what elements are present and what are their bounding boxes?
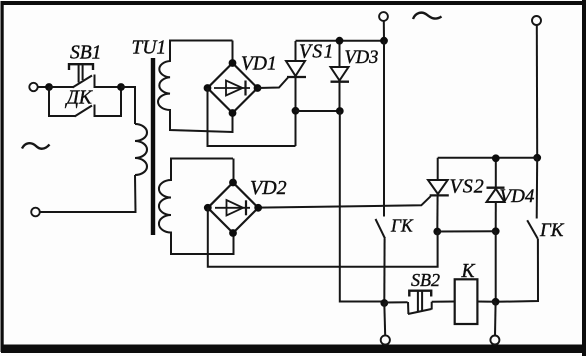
pushbutton SB1 right post — [94, 75, 96, 89]
contact GK left blade — [376, 219, 386, 239]
wire GK left down — [383, 239, 385, 304]
diode bridge VD1 diamond — [208, 63, 258, 113]
AC source squiggle top — [413, 13, 442, 19]
svg-text:SB2: SB2 — [411, 270, 440, 290]
transformer TU1 core — [151, 58, 155, 235]
pushbutton SB1 blade — [73, 76, 93, 88]
frame border right — [582, 0, 586, 356]
terminal bottom-right — [490, 336, 499, 345]
node VD1 right — [254, 84, 262, 92]
node junction SB1 right — [117, 83, 125, 91]
wire bridge 2 top stub — [233, 159, 235, 183]
pushbutton SB2 blade — [408, 309, 431, 314]
AC source squiggle left — [22, 143, 50, 149]
thyristor VS1 — [295, 41, 297, 61]
diode bridge VD2 diamond — [208, 183, 258, 234]
node VD3 top — [336, 37, 344, 45]
wire long vertical to GK left — [383, 41, 385, 217]
node VS1 cathode junction — [292, 107, 300, 115]
thyristor VS2 gate — [258, 196, 431, 207]
wire primary bottom — [40, 175, 136, 212]
wire bottom terminal left stub — [383, 303, 386, 336]
terminal bottom-left — [31, 208, 40, 217]
wire VD1 right to VS1 gate — [258, 78, 289, 89]
wire SB1 right — [95, 86, 122, 88]
wire to primary — [121, 87, 135, 124]
wire terminal down — [383, 21, 385, 41]
contact GK right blade — [527, 220, 538, 239]
node VD4 bottom — [492, 227, 500, 235]
node VD4 top — [492, 154, 500, 162]
svg-text:VD3: VD3 — [345, 48, 379, 68]
wire VD3 down to bottom row — [340, 111, 385, 302]
node bottom row right — [492, 298, 500, 306]
thyristor VS2 — [437, 158, 439, 180]
transformer secondary winding 2 — [159, 159, 234, 255]
terminal top-center — [379, 12, 388, 21]
terminal top-left — [29, 83, 37, 91]
svg-text:VD4: VD4 — [500, 186, 535, 207]
wire SB2 to relay K — [432, 301, 455, 303]
diode bridge VD1 inner diode — [214, 87, 250, 89]
pushbutton SB2 stem — [417, 292, 419, 313]
wire bridge top stub — [232, 41, 234, 64]
frame border bottom — [1, 345, 586, 354]
terminal top-right — [532, 16, 541, 25]
node VD2 right — [254, 204, 262, 212]
svg-text:К: К — [461, 261, 476, 282]
node junction left — [45, 83, 53, 91]
node VD1 bottom — [229, 109, 237, 117]
svg-text:VS2: VS2 — [450, 176, 485, 198]
node bottom row left — [380, 299, 388, 307]
wire — [38, 86, 49, 88]
diode bridge VD2 inner diode — [215, 207, 250, 209]
terminal bottom-left — [381, 335, 390, 344]
diode VD4 — [495, 158, 497, 187]
node VS2 cathode — [433, 228, 441, 236]
svg-text:VD2: VD2 — [250, 177, 287, 199]
wire bottom row to SB2 — [384, 301, 407, 303]
pushbutton SB1 cap — [69, 64, 93, 70]
node right bus — [533, 154, 541, 162]
frame border left — [1, 1, 4, 352]
svg-text:TU1: TU1 — [132, 38, 167, 59]
svg-text:ГК: ГК — [390, 216, 414, 236]
wire VD1 left output — [208, 88, 296, 146]
svg-text:ДК: ДК — [65, 88, 93, 109]
relay coil K — [455, 279, 478, 324]
transformer secondary winding 1 — [158, 41, 233, 133]
frame border top — [1, 1, 586, 5]
svg-text:ГК: ГК — [539, 220, 565, 241]
wire right bus — [438, 157, 538, 159]
svg-text:VD1: VD1 — [241, 54, 277, 75]
node VD2 bottom — [229, 229, 237, 237]
node VD1 top — [229, 59, 237, 67]
diode VD3 — [339, 41, 341, 67]
wire VS2-VD4 cathode row — [437, 230, 495, 232]
wire top bus — [296, 40, 385, 42]
wire DK right — [95, 87, 122, 116]
wire GK right down — [496, 239, 538, 302]
node VD1 left — [204, 84, 212, 92]
node VD2 left — [204, 204, 212, 212]
contact DK right post — [94, 105, 96, 118]
wire right vertical — [536, 25, 538, 158]
contact GK right: wire from bus — [536, 158, 539, 219]
svg-text:VS1: VS1 — [299, 42, 335, 63]
wire K to node — [477, 301, 495, 303]
wire VD4 down — [495, 231, 497, 301]
pushbutton SB1 stem — [78, 65, 80, 83]
pushbutton SB2 left post — [407, 302, 409, 314]
contact DK branch wire down — [49, 87, 75, 116]
pushbutton SB2 cap — [409, 291, 431, 297]
wire VD2 left output — [208, 208, 438, 267]
node VD2 top — [229, 179, 237, 187]
wire cathode bus — [296, 110, 341, 112]
svg-text:SB1: SB1 — [70, 43, 101, 64]
wire SB1 left — [49, 86, 73, 88]
contact DK blade — [75, 106, 93, 117]
node VD3 bottom — [336, 107, 344, 115]
wire bottom terminal right stub — [494, 302, 497, 336]
transformer TU1 primary winding — [135, 124, 147, 175]
node top bus right — [380, 37, 388, 45]
pushbutton SB2 right post — [431, 302, 433, 310]
